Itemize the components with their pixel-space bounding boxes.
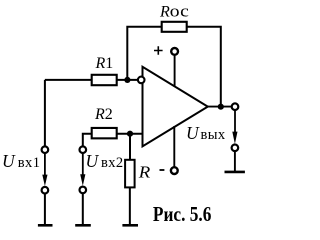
svg-text:R: R — [138, 163, 151, 182]
wire R2 to non-inverting input — [117, 133, 144, 135]
op-amp U1 triangle — [143, 67, 208, 147]
wire feedback left vertical and top run to Roc — [127, 27, 162, 80]
ground (output) — [225, 171, 245, 174]
minus sign — [160, 169, 165, 171]
wire plus power pin — [174, 55, 176, 87]
terminal circle Uvyh bottom — [232, 145, 239, 152]
svg-text:Рис. 5.6: Рис. 5.6 — [153, 202, 212, 226]
resistor Roc — [162, 22, 187, 32]
terminal circle Uvx2 top — [80, 146, 87, 153]
svg-text:U: U — [186, 123, 200, 143]
svg-text:Rос: Rос — [159, 2, 189, 21]
wire Uvx2 corner to R2 — [83, 134, 92, 146]
svg-text:вых: вых — [201, 127, 226, 143]
wire R to ground — [129, 187, 131, 224]
arrow Uvyh — [232, 132, 237, 144]
terminal circle Uvx2 bottom — [80, 187, 87, 194]
wire R1 to inverting input — [117, 79, 138, 81]
ground (Uvx2) — [75, 224, 91, 227]
svg-text:U: U — [2, 151, 16, 171]
svg-text:R1: R1 — [95, 55, 114, 72]
node junction dot feedback/R1 — [124, 77, 130, 83]
arrow Uvx2 — [82, 154, 84, 177]
wire output arrow shaft — [234, 111, 236, 134]
terminal circle Uvx1 bottom — [42, 187, 49, 194]
wire node to resistor R — [129, 134, 131, 161]
wire input 1 row to R1 — [45, 79, 92, 81]
node junction dot output — [218, 104, 224, 110]
arrow Uvx1 — [44, 154, 46, 177]
wire minus power pin — [173, 126, 175, 167]
resistor R — [125, 160, 135, 188]
wire Uvx1 vertical upper — [44, 80, 46, 146]
svg-text:вх2: вх2 — [101, 155, 124, 171]
plus sign — [154, 46, 163, 54]
wire output circle to ground — [234, 151, 236, 171]
terminal circle output — [232, 103, 239, 110]
svg-text:R2: R2 — [94, 106, 113, 123]
wire Uvx2 lower segment to ground — [82, 193, 84, 224]
terminal circle Uvx1 top — [42, 146, 49, 153]
wire Uvx1 lower segment to ground — [44, 194, 46, 225]
svg-text:вх1: вх1 — [18, 155, 41, 171]
svg-text:U: U — [86, 151, 100, 171]
ground (R) — [122, 224, 138, 227]
node junction dot R2/R — [127, 131, 133, 137]
wire output — [208, 106, 232, 108]
wire feedback Roc to output node — [187, 27, 221, 107]
power terminal minus circle — [171, 167, 178, 174]
resistor R2 — [92, 128, 117, 138]
inversion circle at inverting input — [138, 77, 145, 84]
resistor R1 — [92, 75, 117, 85]
ground (Uvx1) — [38, 224, 53, 227]
power terminal plus circle — [171, 48, 178, 55]
